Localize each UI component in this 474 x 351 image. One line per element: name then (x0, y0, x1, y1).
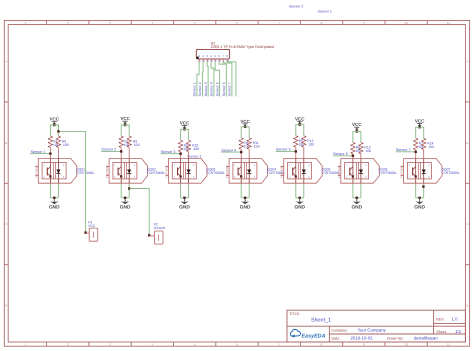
label OQ05 TCRT5000L (321, 167, 340, 175)
wire VCC split (block 3) (181, 129, 189, 140)
ground (block 3) (179, 198, 190, 211)
VCC power flag (block 4) (240, 119, 250, 127)
node GND junction (block 7) (418, 197, 420, 199)
svg-text:7: 7 (222, 54, 224, 58)
node VCC junction (block 3) (183, 128, 185, 130)
wire GND join (block 5) (296, 197, 304, 199)
node junction below optocoupler (block 7) (422, 185, 424, 187)
svg-text:3: 3 (134, 176, 136, 179)
svg-text:100: 100 (134, 143, 140, 147)
svg-text:11: 11 (447, 342, 450, 346)
wire resistor bottoms into optocoupler (block 4) (240, 149, 242, 158)
svg-text:Sensor 4: Sensor 4 (221, 148, 236, 152)
svg-text:100: 100 (193, 147, 199, 151)
VCC power flag (block 7) (415, 118, 425, 127)
svg-text:3: 3 (428, 176, 430, 179)
svg-text:D: D (466, 304, 469, 308)
svg-text:1/1: 1/1 (455, 329, 462, 334)
resistor R10 100 (block 3) (186, 140, 199, 152)
label OQ03 TCRT5000L (206, 167, 225, 175)
svg-text:3: 3 (193, 176, 195, 179)
svg-text:B: B (466, 141, 468, 145)
node Sensor 6 junction (352, 155, 354, 157)
wire VCC split (block 2) (121, 125, 129, 136)
svg-text:100: 100 (366, 149, 372, 153)
svg-text:3: 3 (63, 176, 65, 179)
svg-text:Sensor 1: Sensor 1 (31, 150, 46, 154)
svg-text:4: 4 (210, 54, 212, 58)
svg-text:8: 8 (226, 54, 228, 58)
resistor R9 100 (block 2) (127, 136, 140, 148)
wire H2 pin 8 to Sensor 8 (227, 62, 236, 97)
resistor R8 100 (block 1) (56, 136, 69, 148)
VCC power flag (block 3) (180, 121, 190, 130)
svg-text:TCRT5000: TCRT5000 (166, 165, 169, 178)
svg-text:3: 3 (365, 176, 367, 179)
svg-text:2: 2 (202, 54, 204, 58)
node Sensor 2 junction (120, 150, 122, 152)
svg-text:VCC: VCC (180, 121, 190, 126)
svg-text:3: 3 (206, 54, 208, 58)
ground (block 7) (414, 198, 425, 211)
svg-text:100: 100 (428, 145, 434, 149)
optocoupler OQ06 TCRT5000L (block 6) (338, 159, 380, 184)
svg-text:Ground: Ground (154, 226, 165, 230)
svg-text:10: 10 (404, 342, 408, 346)
resistor R14 100 (block 7) (421, 138, 434, 150)
svg-text:4: 4 (193, 164, 195, 167)
svg-text:GND: GND (179, 205, 190, 211)
svg-text:3: 3 (254, 176, 256, 179)
wire H2 pin 4 to Sensor 4 (211, 62, 214, 97)
svg-text:GND: GND (351, 205, 362, 211)
svg-text:VCC: VCC (415, 118, 425, 123)
resistor R3 10k (block 3) (178, 140, 189, 152)
svg-text:3: 3 (308, 176, 310, 179)
svg-text:Sensor 4: Sensor 4 (210, 82, 214, 96)
node Sensor 5 junction (295, 150, 297, 152)
svg-text:11: 11 (447, 21, 450, 25)
label P1 VCC (88, 221, 96, 229)
svg-text:TCRT5000: TCRT5000 (226, 165, 229, 178)
wire VCC split (block 4) (241, 127, 249, 138)
connector P1 (VCC) (84, 228, 97, 241)
wire VCC tap from block 1 to P1 (58, 125, 85, 233)
node Sensor 7 junction (415, 151, 417, 153)
svg-text:Sensor 7: Sensor 7 (396, 148, 411, 152)
node VCC junction (block 4) (244, 126, 246, 128)
wire Sensor 6 net stub (block 6) (333, 155, 353, 157)
svg-text:TCRT5000: TCRT5000 (281, 165, 284, 178)
svg-text:7: 7 (223, 60, 225, 63)
wire resistor bottoms into optocoupler (block 5) (295, 147, 297, 158)
VCC power flag (block 6) (352, 122, 362, 131)
svg-text:GND: GND (120, 205, 131, 211)
resistor R4 10k (block 4) (239, 138, 250, 150)
svg-text:2: 2 (114, 164, 116, 167)
node GND junction (block 3) (183, 197, 185, 199)
svg-text:100: 100 (308, 143, 314, 147)
svg-text:100: 100 (63, 143, 69, 147)
resistor R2 10k (block 2) (119, 136, 130, 148)
svg-text:Drawn By:: Drawn By: (387, 336, 404, 340)
svg-text:Sensor 5: Sensor 5 (215, 82, 219, 96)
svg-text:Sensor 3: Sensor 3 (204, 82, 208, 96)
svg-text:1: 1 (409, 176, 411, 179)
wire GND tap from block 2 to P2 (129, 189, 149, 236)
svg-text:2: 2 (174, 164, 176, 167)
wire Sensor 4 net stub (block 4) (221, 151, 241, 153)
wire VCC split (block 6) (353, 131, 361, 142)
svg-text:1: 1 (346, 176, 348, 179)
svg-text:VCC: VCC (88, 224, 96, 228)
wire H2 pin 3 to Sensor 3 (207, 62, 208, 97)
svg-text:GND: GND (294, 205, 305, 211)
svg-text:Sensor 3: Sensor 3 (187, 154, 201, 158)
svg-text:2266-1 TP H=8.5MM Type Gold-pl: 2266-1 TP H=8.5MM Type Gold-plated (211, 45, 274, 49)
wire resistor bottoms into optocoupler (block 6) (352, 154, 354, 159)
svg-text:Company:: Company: (332, 328, 348, 332)
label P2 Ground (154, 222, 165, 230)
svg-text:Sensor 2: Sensor 2 (198, 82, 202, 96)
svg-text:2: 2 (289, 164, 291, 167)
wire GND join (block 7) (416, 197, 424, 199)
svg-text:5: 5 (214, 54, 216, 58)
svg-text:6: 6 (219, 60, 221, 63)
optocoupler OQ04 TCRT5000L (block 4) (226, 159, 268, 184)
svg-text:4: 4 (211, 60, 213, 63)
wire GND join (block 2) (121, 197, 129, 199)
resistor R6 10k (block 6) (350, 142, 361, 154)
svg-text:1: 1 (90, 235, 92, 238)
svg-text:2: 2 (203, 60, 205, 63)
svg-text:2: 2 (346, 164, 348, 167)
svg-text:EasyEDA: EasyEDA (302, 334, 326, 340)
svg-text:Sensor 7: Sensor 7 (228, 82, 232, 96)
resistor R11 100 (block 4) (247, 138, 260, 150)
resistor R5 10k (block 5) (293, 136, 304, 148)
svg-text:VCC: VCC (352, 122, 362, 127)
wire H2 pin 5 to Sensor 5 (215, 62, 220, 97)
svg-text:Sheet_1: Sheet_1 (311, 318, 331, 324)
svg-text:Your Company: Your Company (358, 327, 387, 332)
label OQ02 TCRT5000L (147, 167, 166, 175)
label OQ06 TCRT5000L (379, 167, 398, 175)
node VCC junction (block 7) (418, 126, 420, 128)
svg-text:VCC: VCC (240, 119, 250, 124)
svg-text:TITLE:: TITLE: (289, 312, 300, 316)
connector P2 (Ground) (148, 231, 163, 244)
node VCC junction (block 2) (124, 124, 126, 126)
ground (block 6) (351, 198, 362, 211)
node VCC junction (block 5) (299, 124, 301, 126)
svg-text:B: B (5, 141, 7, 145)
ground (block 1) (49, 198, 60, 211)
wire Sensor 5 net stub (block 5) (276, 150, 296, 152)
VCC power flag (block 5) (295, 116, 305, 124)
EasyEDA logo (290, 329, 325, 339)
svg-text:10: 10 (404, 21, 408, 25)
resistor R13 100 (block 6) (358, 142, 371, 154)
svg-text:VCC: VCC (50, 117, 60, 122)
svg-text:TCRT5000L: TCRT5000L (147, 171, 166, 175)
wire resistor bottoms into optocoupler (block 2) (120, 148, 122, 159)
svg-text:Sensor 2: Sensor 2 (101, 148, 116, 152)
resistor R12 100 (block 5) (301, 136, 314, 148)
wire Sensor 7 net stub (block 7) (396, 151, 416, 153)
svg-text:TCRT5000: TCRT5000 (35, 165, 38, 178)
svg-text:Sensor 1: Sensor 1 (193, 82, 197, 96)
VCC power flag (block 2) (120, 116, 130, 125)
ground (block 2) (120, 198, 131, 211)
title block (287, 310, 465, 342)
svg-text:4: 4 (308, 164, 310, 167)
svg-text:1: 1 (289, 176, 291, 179)
svg-text:Sensor 1: Sensor 1 (318, 10, 332, 14)
svg-text:GND: GND (49, 205, 60, 211)
wire resistor bottoms into optocoupler (block 3) (180, 152, 182, 159)
svg-text:1: 1 (199, 60, 201, 63)
svg-text:TCRT5000: TCRT5000 (106, 165, 109, 178)
svg-text:derrellhasan: derrellhasan (414, 335, 438, 340)
wire GND join (block 3) (181, 197, 189, 199)
svg-text:Date:: Date: (332, 336, 341, 340)
svg-text:100: 100 (254, 145, 260, 149)
wire VCC split (block 1) (50, 125, 58, 136)
connector H2 (196, 49, 229, 62)
svg-text:2: 2 (44, 164, 46, 167)
optocoupler OQ07 TCRT5000L (block 7) (401, 159, 443, 184)
label OQ04 TCRT5000L (267, 167, 286, 175)
wire Sensor 3 net stub (block 3) (161, 153, 181, 155)
node GND junction (block 5) (299, 197, 301, 199)
resistor R7 10k (block 7) (413, 138, 424, 150)
node GND junction (block 4) (244, 197, 246, 199)
svg-text:Sensor 6: Sensor 6 (222, 82, 226, 96)
wire H2 pin 1 to Sensor 1 (197, 62, 199, 97)
node GND tap junction (block 2) (128, 187, 130, 189)
wire VCC split (block 7) (416, 127, 424, 138)
svg-text:TCRT5000L: TCRT5000L (379, 171, 398, 175)
wire VCC split (block 5) (296, 125, 304, 136)
wire resistor bottoms into optocoupler (block 7) (415, 150, 417, 159)
wire H2 pin 7 to Sensor 7 (223, 62, 232, 97)
node Sensor 3 junction (179, 153, 181, 155)
optocoupler OQ02 TCRT5000L (block 2) (106, 159, 148, 184)
svg-text:2: 2 (234, 164, 236, 167)
svg-text:TCRT5000L: TCRT5000L (206, 171, 225, 175)
wire GND join (block 4) (241, 197, 249, 199)
wire Sensor 1 net stub (block 1) (30, 153, 50, 155)
node VCC junction (block 1) (53, 124, 55, 126)
svg-text:5: 5 (215, 60, 217, 63)
svg-text:2: 2 (409, 164, 411, 167)
optocoupler OQ05 TCRT5000L (block 5) (281, 159, 323, 184)
node GND junction (block 1) (53, 197, 55, 199)
svg-text:A: A (466, 59, 468, 63)
svg-text:4: 4 (63, 164, 65, 167)
wire GND join (block 6) (353, 197, 361, 199)
svg-text:1: 1 (234, 176, 236, 179)
svg-text:4: 4 (365, 164, 367, 167)
svg-text:Sensor 2: Sensor 2 (289, 5, 303, 9)
svg-text:GND: GND (240, 205, 251, 211)
svg-text:4: 4 (134, 164, 136, 167)
svg-text:4: 4 (428, 164, 430, 167)
svg-text:Sensor 5: Sensor 5 (276, 148, 291, 152)
svg-text:C: C (466, 222, 469, 226)
node VCC tap junction (block 1) (57, 130, 59, 132)
svg-text:1.0: 1.0 (452, 317, 459, 322)
svg-text:1: 1 (155, 238, 157, 241)
svg-text:3: 3 (207, 60, 209, 63)
node GND junction (block 2) (124, 197, 126, 199)
node VCC junction (block 6) (356, 130, 358, 132)
svg-text:VCC: VCC (120, 116, 130, 121)
svg-text:Sensor 3: Sensor 3 (161, 150, 176, 154)
svg-text:TCRT5000: TCRT5000 (338, 165, 341, 178)
resistor R1 10k (block 1) (48, 136, 59, 148)
svg-text:TCRT5000L: TCRT5000L (441, 171, 460, 175)
svg-text:REV:: REV: (436, 318, 444, 322)
svg-text:1: 1 (44, 176, 46, 179)
wire GND join (block 1) (50, 197, 58, 199)
ground (block 5) (294, 198, 305, 211)
wire Sensor 2 net stub (block 2) (101, 150, 121, 152)
VCC power flag (block 1) (50, 117, 60, 125)
svg-text:6: 6 (218, 54, 220, 58)
wire H2 pin 6 to Sensor 6 (219, 62, 226, 97)
svg-text:Sheet:: Sheet: (436, 330, 446, 334)
wire resistor bottoms into optocoupler (block 1) (49, 148, 51, 159)
wire H2 pin 2 to Sensor 2 (201, 62, 204, 97)
label OQ07 TCRT5000L (441, 167, 460, 175)
svg-text:TCRT5000: TCRT5000 (401, 165, 404, 178)
svg-text:1: 1 (174, 176, 176, 179)
node Sensor 4 junction (240, 151, 242, 153)
svg-text:1: 1 (198, 54, 200, 58)
svg-text:4: 4 (254, 164, 256, 167)
svg-text:GND: GND (414, 205, 425, 211)
node GND junction (block 6) (356, 197, 358, 199)
ground (block 4) (240, 198, 251, 211)
svg-text:A: A (5, 59, 7, 63)
svg-text:Sensor 6: Sensor 6 (333, 152, 348, 156)
node Sensor 1 junction (49, 152, 51, 154)
optocoupler OQ03 TCRT5000L (block 3) (166, 159, 208, 184)
label OQ01 TCRT5000L (76, 167, 95, 175)
svg-text:2019-10-02: 2019-10-02 (351, 335, 374, 340)
svg-text:VCC: VCC (295, 116, 305, 121)
svg-text:1: 1 (114, 176, 116, 179)
optocoupler OQ01 TCRT5000L (block 1) (35, 159, 77, 184)
